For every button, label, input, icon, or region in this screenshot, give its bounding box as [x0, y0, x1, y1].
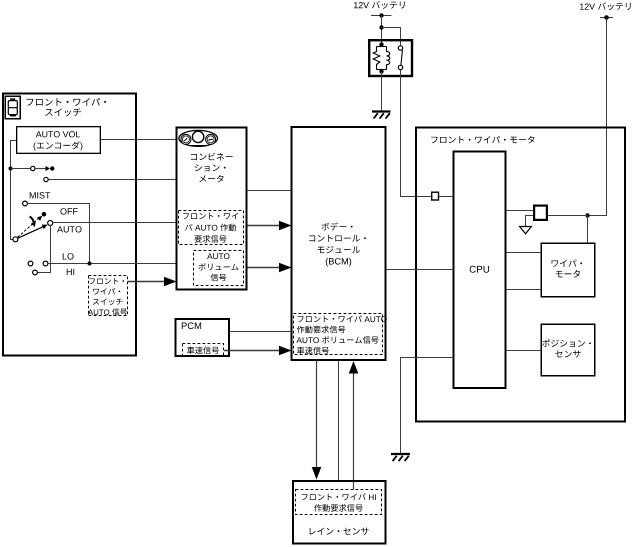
switch pivot common [13, 237, 18, 242]
cpu U1 [454, 152, 506, 389]
label HI [67, 269, 74, 275]
block PCM [176, 319, 230, 356]
rotation arc [30, 217, 36, 227]
wire rain sensor to BCM [349, 361, 359, 490]
wire battery2 down to motor [588, 18, 607, 216]
wire switch AUTO signal to meter [128, 277, 177, 287]
wire AUTO contact down to HI [37, 225, 50, 273]
wire BCM to rain sensor 2 [338, 361, 340, 480]
wire CPU to wiper motor 2 [507, 289, 542, 291]
connector pin right of CPU [534, 206, 547, 220]
arrow open down (motor drive) [520, 227, 532, 234]
wire AUTO VOL to meter [101, 139, 176, 141]
block rain sensor [293, 481, 386, 544]
wire relay coil to ground [381, 72, 383, 112]
switch contact output row [44, 177, 48, 181]
label AUTO [57, 226, 82, 232]
signal label AUTO volume [194, 251, 244, 286]
block combination meter [177, 128, 247, 290]
node 12V battery feed 1 [354, 1, 405, 18]
wire junction to CPU connector [548, 215, 588, 217]
wire CPU to ground [401, 358, 454, 454]
junction LO-MIST [88, 262, 92, 266]
wire meter AUTO request to BCM [248, 221, 292, 231]
label MIST [30, 192, 51, 198]
wire BCM to rain sensor 1 [312, 361, 322, 480]
label OFF [60, 208, 77, 214]
node OFF position [42, 212, 47, 217]
junction encoder row [9, 167, 13, 171]
relay wiper relay box [369, 40, 412, 76]
wire BCM to CPU [387, 269, 454, 271]
switch arm dashed (to OFF) [18, 216, 43, 238]
switch contact LO pair [28, 261, 48, 266]
wire AUTO VOL to switch common [11, 141, 17, 240]
switch arm (AUTO position) [18, 225, 48, 239]
relay contact [398, 46, 402, 70]
block body control module BCM [292, 127, 386, 360]
ground motor CPU [391, 454, 410, 461]
switch contact HI [33, 270, 38, 275]
wire LO to meter [48, 263, 176, 265]
label LO [63, 253, 74, 259]
connector pin left of CPU [432, 192, 439, 200]
signal label vehicle speed [183, 344, 224, 357]
wire CPU to position sensor [507, 350, 542, 352]
signal label BCM inputs [294, 314, 387, 355]
block front wiper motor [416, 128, 625, 422]
block front wiper switch [3, 94, 136, 356]
block position sensor [541, 324, 595, 376]
wire battery1 to relay coil [381, 16, 383, 45]
signal label front wiper HI request [296, 490, 382, 515]
node 12V battery feed 2 [580, 2, 631, 19]
wire meter AUTO volume to BCM [248, 263, 292, 273]
wire MIST to LO line [27, 204, 89, 264]
switch contact encoder row [11, 166, 55, 171]
block wiper motor [541, 243, 595, 297]
wire PCM to BCM [230, 331, 291, 333]
relay coil with resistor [373, 42, 390, 73]
wire connector branch down [526, 216, 534, 227]
wire connector to CPU [439, 196, 454, 198]
junction motor supply [585, 213, 589, 217]
signal label front wiper AUTO request [179, 211, 244, 245]
wire AUTO to meter [52, 222, 175, 224]
wire CPU to connector [507, 210, 534, 212]
wire CPU to wiper motor 1 [507, 252, 542, 254]
wire junction to wiper motor [587, 216, 589, 244]
switch contact MIST [23, 201, 28, 206]
junction battery1 branch [379, 25, 383, 29]
wire battery1 branch to relay contact [382, 28, 401, 47]
wire switch to meter 1 [48, 179, 175, 181]
wire vehicle speed to BCM [224, 346, 292, 356]
switch contact AUTO [48, 221, 53, 226]
icon wiper stalk switch [5, 96, 20, 119]
signal label switch AUTO signal [88, 276, 128, 316]
icon instrument cluster [179, 130, 218, 146]
wire relay contact to motor connector [401, 70, 432, 197]
wire meter to BCM [248, 190, 292, 192]
ground relay coil [372, 112, 391, 119]
block AUTO VOL encoder [17, 127, 101, 154]
